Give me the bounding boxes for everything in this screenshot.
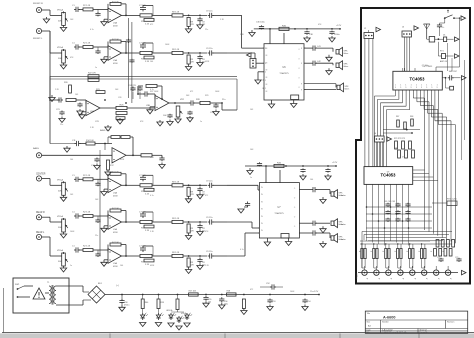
svg-text:472: 472 [205, 195, 208, 197]
svg-text:4ohm: 4ohm [341, 224, 346, 226]
svg-text:100u: 100u [224, 303, 228, 305]
svg-text:104: 104 [208, 301, 211, 303]
svg-text:R59: R59 [161, 302, 164, 304]
svg-text:C:\A6600\Design\A-6607.ddb: C:\A6600\Design\A-6607.ddb [382, 331, 407, 334]
svg-text:9: 9 [395, 87, 396, 89]
svg-text:R71 R72 R73: R71 R72 R73 [394, 138, 405, 140]
svg-text:C54: C54 [307, 301, 310, 303]
svg-text:REAR R: REAR R [36, 211, 45, 214]
svg-text:R14 10K: R14 10K [86, 140, 94, 142]
svg-text:22u: 22u [222, 99, 225, 101]
svg-text:C24 C25: C24 C25 [128, 85, 137, 87]
svg-text:C9 22u: C9 22u [206, 10, 212, 12]
svg-text:U1A: U1A [113, 191, 118, 194]
svg-text:22u: 22u [60, 124, 63, 126]
svg-text:R2 5.1K: R2 5.1K [83, 43, 91, 45]
svg-text:1: 1 [265, 80, 266, 82]
svg-text:4558: 4558 [150, 265, 154, 267]
svg-text:8ohm: 8ohm [344, 53, 349, 55]
svg-text:9: 9 [431, 87, 432, 89]
svg-text:U3B: U3B [146, 105, 151, 107]
svg-text:472: 472 [402, 157, 405, 159]
svg-text:4ohm: 4ohm [341, 195, 346, 197]
svg-text:100K: 100K [215, 91, 220, 93]
svg-text:4558: 4558 [205, 61, 209, 63]
svg-text:R67: R67 [396, 116, 399, 118]
svg-text:R2 5.1K: R2 5.1K [83, 246, 91, 248]
svg-text:VR1-A: VR1-A [57, 215, 64, 218]
svg-text:R26: R26 [116, 116, 119, 118]
svg-text:1u: 1u [250, 177, 252, 179]
svg-text:472: 472 [190, 91, 193, 93]
svg-text:R8 5.1K: R8 5.1K [172, 252, 180, 254]
svg-text:4.7u: 4.7u [150, 195, 154, 197]
svg-text:100K: 100K [290, 291, 295, 293]
svg-text:R22 47K: R22 47K [88, 73, 96, 75]
svg-text:4558: 4558 [120, 159, 124, 161]
svg-text:SMD RST: SMD RST [449, 71, 458, 73]
svg-text:FRONT: FRONT [357, 272, 359, 279]
svg-text:FRONT-R: FRONT-R [33, 3, 43, 5]
svg-text:VR5-A: VR5-A [181, 312, 187, 315]
svg-text:1: 1 [265, 48, 266, 50]
svg-text:C30 100u: C30 100u [256, 22, 265, 24]
svg-text:C9 22u: C9 22u [206, 48, 212, 50]
svg-text:9: 9 [426, 87, 427, 89]
svg-text:8ohm: 8ohm [345, 88, 350, 90]
svg-text:472: 472 [150, 24, 153, 26]
svg-text:VR1-A: VR1-A [57, 46, 64, 49]
svg-text:TDA7375: TDA7375 [274, 212, 284, 215]
svg-text:RT01 C250: RT01 C250 [447, 199, 457, 201]
svg-text:1: 1 [265, 72, 266, 74]
svg-text:+12V: +12V [336, 25, 342, 27]
svg-text:U1A: U1A [113, 59, 118, 62]
svg-text:1u: 1u [70, 265, 72, 267]
svg-text:RY1: RY1 [440, 51, 444, 53]
svg-text:U1A: U1A [113, 228, 118, 231]
svg-text:104: 104 [150, 61, 153, 63]
svg-text:472: 472 [202, 24, 205, 26]
svg-text:REAR L: REAR L [36, 231, 45, 234]
svg-text:9: 9 [301, 84, 302, 86]
svg-text:C61 C62 C63: C61 C62 C63 [384, 201, 395, 203]
svg-text:Drawn By:: Drawn By: [420, 331, 429, 334]
svg-text:R29: R29 [205, 95, 208, 97]
svg-text:472: 472 [250, 289, 253, 291]
svg-text:R8 5.1K: R8 5.1K [172, 11, 180, 13]
svg-text:+12V: +12V [313, 291, 319, 293]
svg-text:+12V: +12V [332, 162, 338, 164]
svg-text:1u: 1u [95, 67, 97, 69]
svg-text:U3A: U3A [90, 110, 95, 113]
svg-text:Number: Number [382, 321, 389, 324]
svg-text:FRONT-L: FRONT-L [33, 38, 43, 40]
svg-text:Revision: Revision [447, 322, 454, 324]
svg-text:R4 10K: R4 10K [112, 171, 119, 173]
svg-text:104: 104 [70, 159, 73, 161]
svg-text:4.7u: 4.7u [240, 249, 244, 251]
svg-text:103: 103 [75, 94, 78, 96]
svg-text:9: 9 [400, 87, 401, 89]
svg-text:4700u: 4700u [124, 305, 129, 307]
svg-text:1u: 1u [200, 121, 202, 123]
svg-text:VR1-A: VR1-A [57, 178, 64, 181]
svg-text:9: 9 [301, 63, 302, 65]
svg-text:9: 9 [421, 87, 422, 89]
svg-text:R58: R58 [227, 291, 230, 293]
svg-text:R8 5.1K: R8 5.1K [172, 49, 180, 51]
svg-text:103: 103 [250, 109, 253, 111]
svg-text:22u: 22u [95, 235, 98, 237]
svg-text:103: 103 [70, 194, 73, 196]
svg-text:R2 5.1K: R2 5.1K [83, 5, 91, 7]
svg-text:C71: C71 [437, 257, 440, 259]
svg-text:1: 1 [265, 88, 266, 90]
svg-text:Size: Size [367, 322, 371, 324]
svg-text:R4 10K: R4 10K [112, 39, 119, 41]
svg-text:4ohm: 4ohm [341, 239, 346, 241]
svg-text:9: 9 [301, 48, 302, 50]
svg-text:CENTER: CENTER [36, 174, 46, 176]
svg-text:R57 10K: R57 10K [189, 291, 197, 293]
svg-text:TDA7375: TDA7375 [279, 72, 289, 75]
svg-text:9: 9 [301, 89, 302, 91]
svg-text:C72: C72 [455, 257, 458, 259]
svg-text:R60: R60 [145, 302, 148, 304]
svg-text:22u: 22u [310, 291, 313, 293]
svg-text:R2 5.1K: R2 5.1K [83, 212, 91, 214]
svg-text:22u: 22u [205, 29, 208, 31]
svg-text:C9 22u: C9 22u [206, 217, 212, 219]
svg-text:AMP ON: AMP ON [440, 60, 448, 63]
svg-text:R4 10K: R4 10K [112, 208, 119, 210]
svg-text:9: 9 [437, 87, 438, 89]
svg-text:100K: 100K [70, 231, 75, 233]
svg-text:103: 103 [395, 148, 398, 150]
svg-text:9: 9 [411, 87, 412, 89]
svg-text:104: 104 [310, 179, 313, 181]
svg-text:2200u: 2200u [334, 34, 340, 36]
svg-text:104: 104 [120, 265, 123, 267]
svg-text:D1: D1 [443, 35, 445, 37]
svg-text:C26: C26 [118, 97, 121, 99]
svg-text:VR1-A: VR1-A [57, 8, 64, 11]
svg-text:(+): (+) [116, 285, 119, 287]
svg-text:1: 1 [265, 63, 266, 65]
svg-text:VR1-A: VR1-A [57, 249, 64, 252]
svg-text:100K: 100K [165, 44, 170, 46]
svg-text:A-6600: A-6600 [383, 316, 395, 320]
svg-text:R4 10K: R4 10K [112, 1, 119, 3]
svg-text:R4 10K: R4 10K [112, 242, 119, 244]
svg-text:U1A: U1A [113, 262, 118, 265]
svg-text:C9 22u: C9 22u [206, 180, 212, 182]
svg-text:Title: Title [367, 312, 371, 315]
svg-text:9: 9 [416, 87, 417, 89]
svg-text:BASS: BASS [33, 147, 39, 150]
svg-text:R8 5.1K: R8 5.1K [172, 181, 180, 183]
svg-text:8ohm: 8ohm [344, 66, 349, 68]
svg-text:9: 9 [405, 87, 406, 89]
svg-text:TC4053: TC4053 [410, 77, 426, 82]
svg-text:LED2-A: LED2-A [166, 309, 173, 312]
svg-text:C9 22u: C9 22u [206, 251, 212, 253]
svg-text:File: File [367, 332, 370, 334]
svg-text:4.7u: 4.7u [150, 89, 154, 91]
svg-text:R68: R68 [410, 116, 413, 118]
svg-text:C53: C53 [272, 301, 275, 303]
svg-text:R2 5.1K: R2 5.1K [83, 175, 91, 177]
svg-text:4.7u: 4.7u [90, 29, 94, 31]
svg-text:U1A: U1A [113, 21, 118, 24]
svg-text:R27 100K: R27 100K [150, 91, 159, 93]
svg-text:U8 TC4053: U8 TC4053 [423, 66, 433, 68]
svg-text:R8 5.1K: R8 5.1K [172, 218, 180, 220]
svg-text:BASS OUT: BASS OUT [100, 129, 111, 132]
